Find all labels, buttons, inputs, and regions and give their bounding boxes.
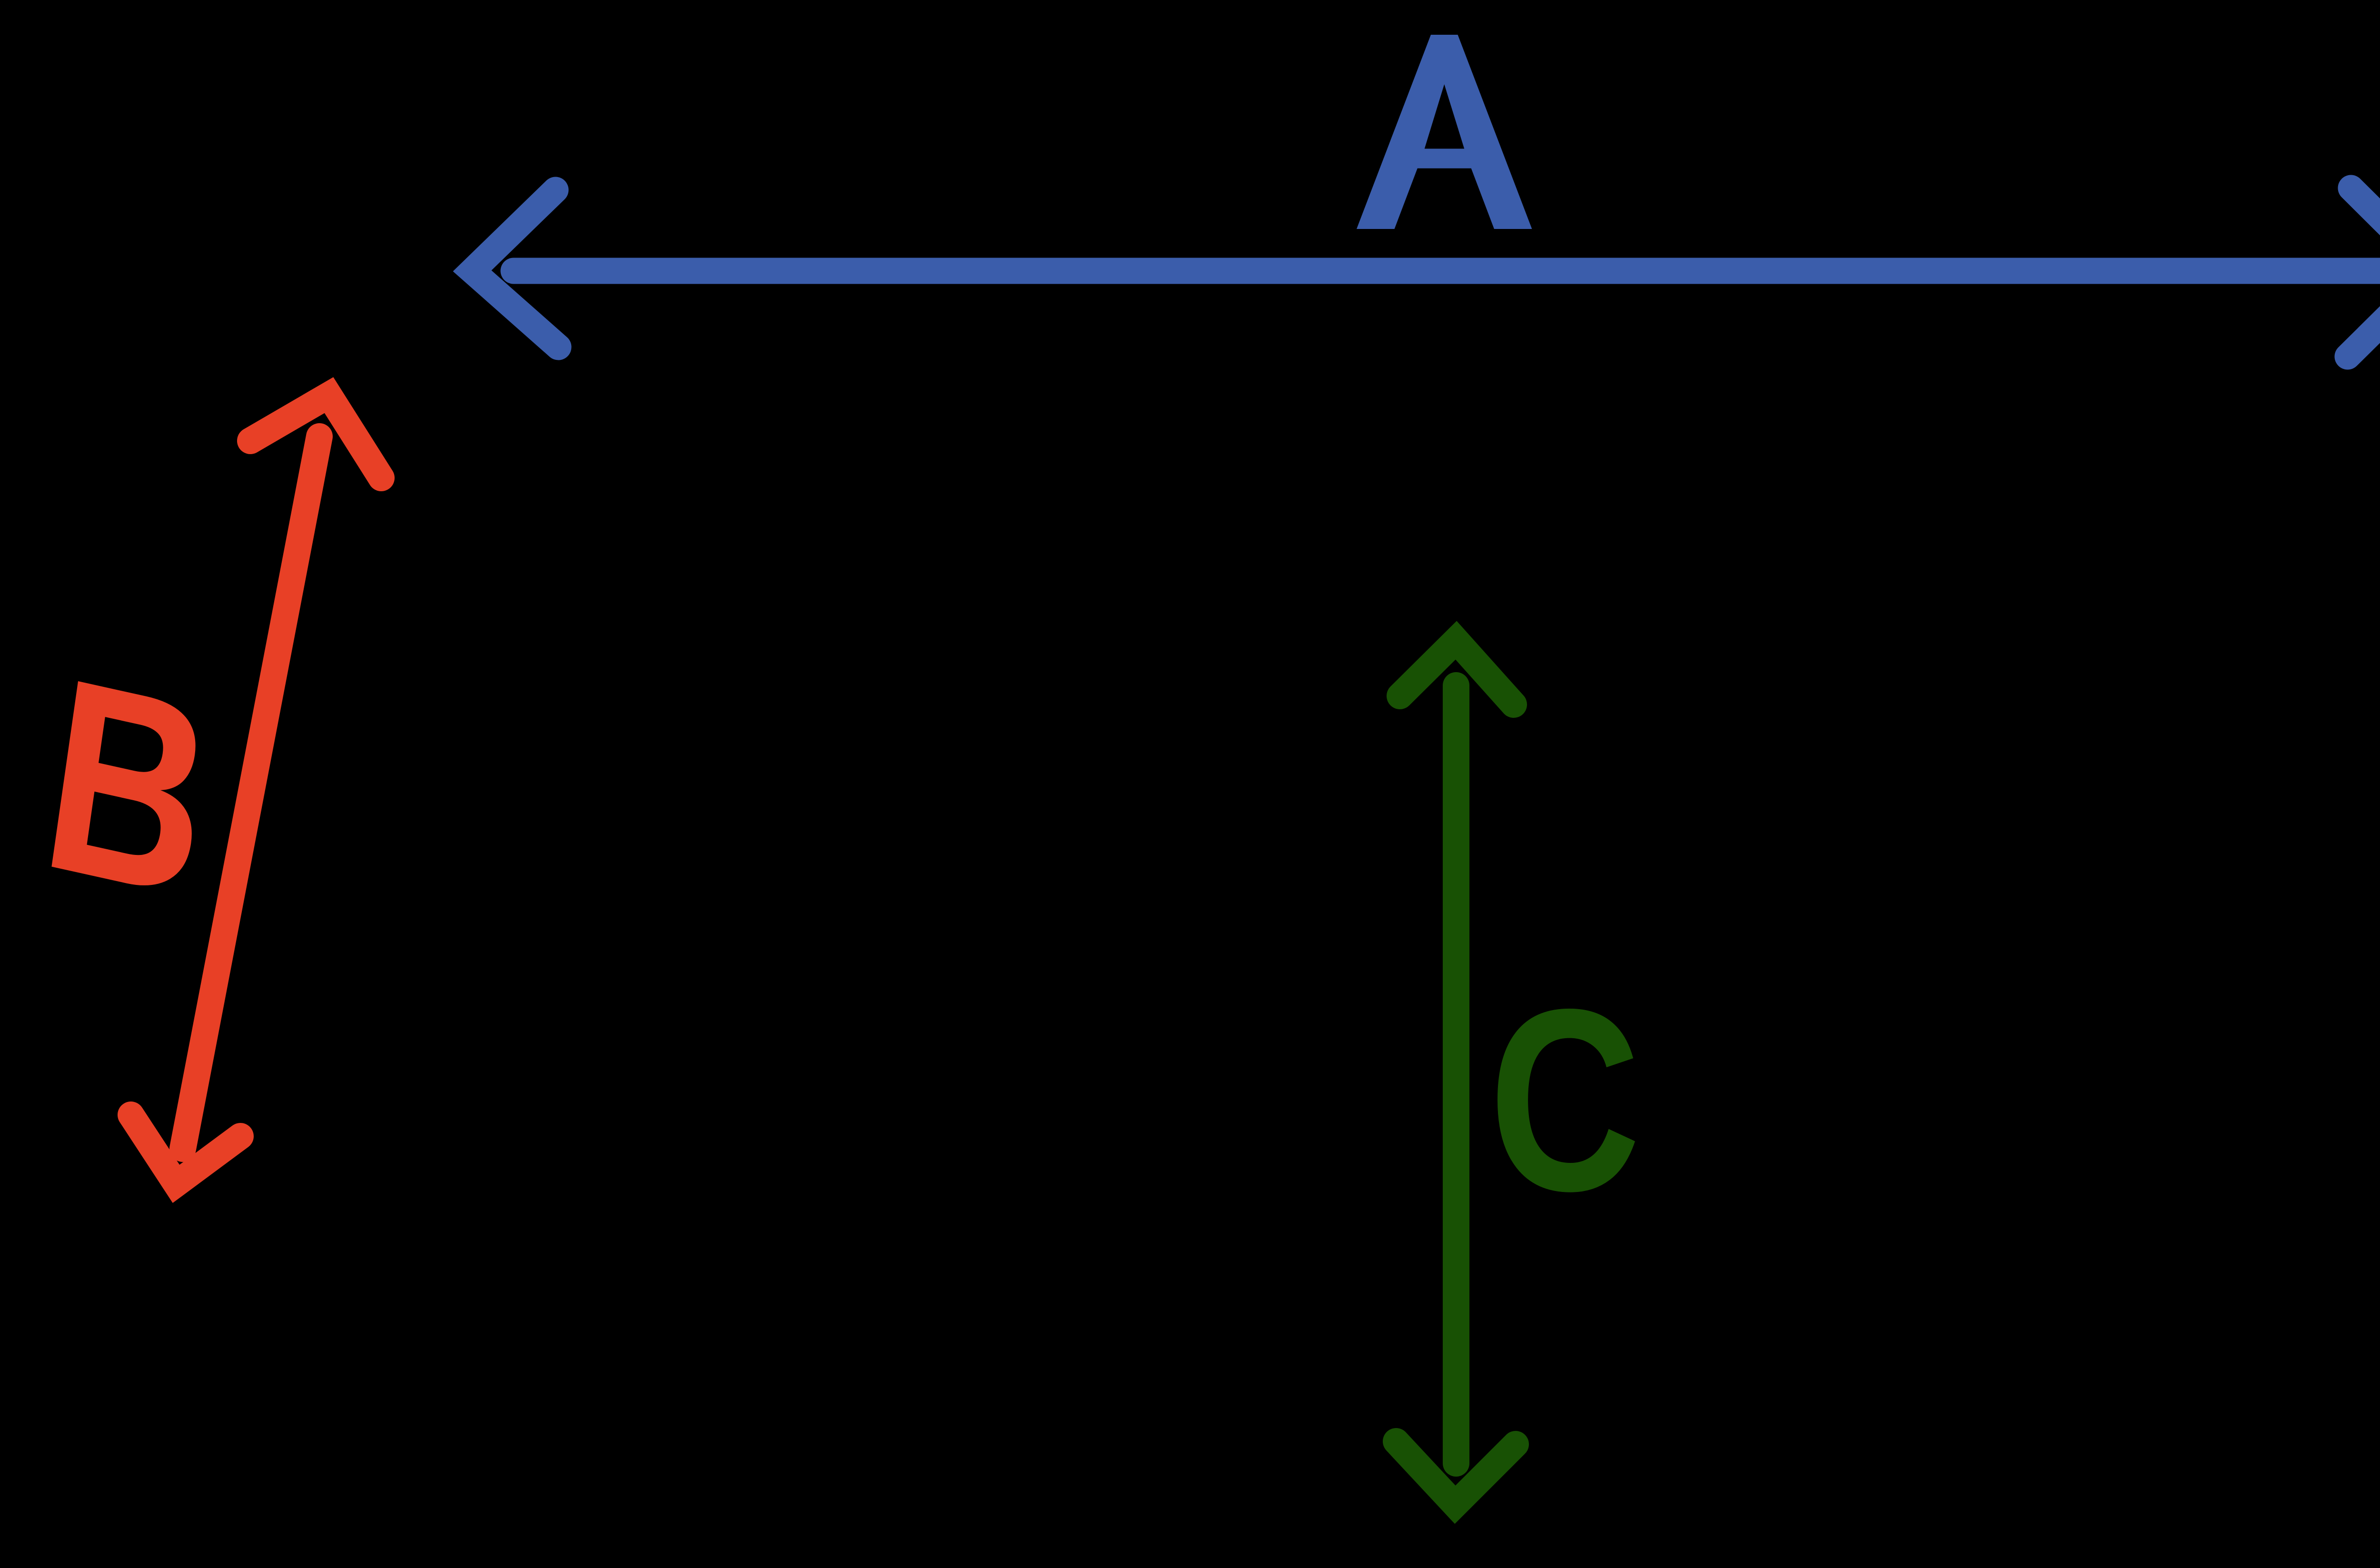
arrow C (green vertical double-headed arrow) (1396, 640, 1516, 1505)
arrow B (red tilted double-headed arrow) (131, 395, 381, 1184)
red top arrowhead (250, 395, 381, 478)
red bottom arrowhead (131, 1115, 240, 1184)
wire: red shaft (183, 437, 319, 1149)
blue right arrowhead (2348, 188, 2380, 357)
arrow A (blue horizontal double-headed arrow) (472, 188, 2380, 357)
label A (1357, 35, 1532, 229)
blue left arrowhead (472, 190, 558, 347)
green bottom arrowhead (1396, 1441, 1516, 1505)
svg-text:C: C (1489, 955, 1641, 1245)
wire: blue shaft (514, 258, 2380, 284)
green top arrowhead (1400, 640, 1514, 705)
wire: green shaft (1443, 685, 1469, 1463)
